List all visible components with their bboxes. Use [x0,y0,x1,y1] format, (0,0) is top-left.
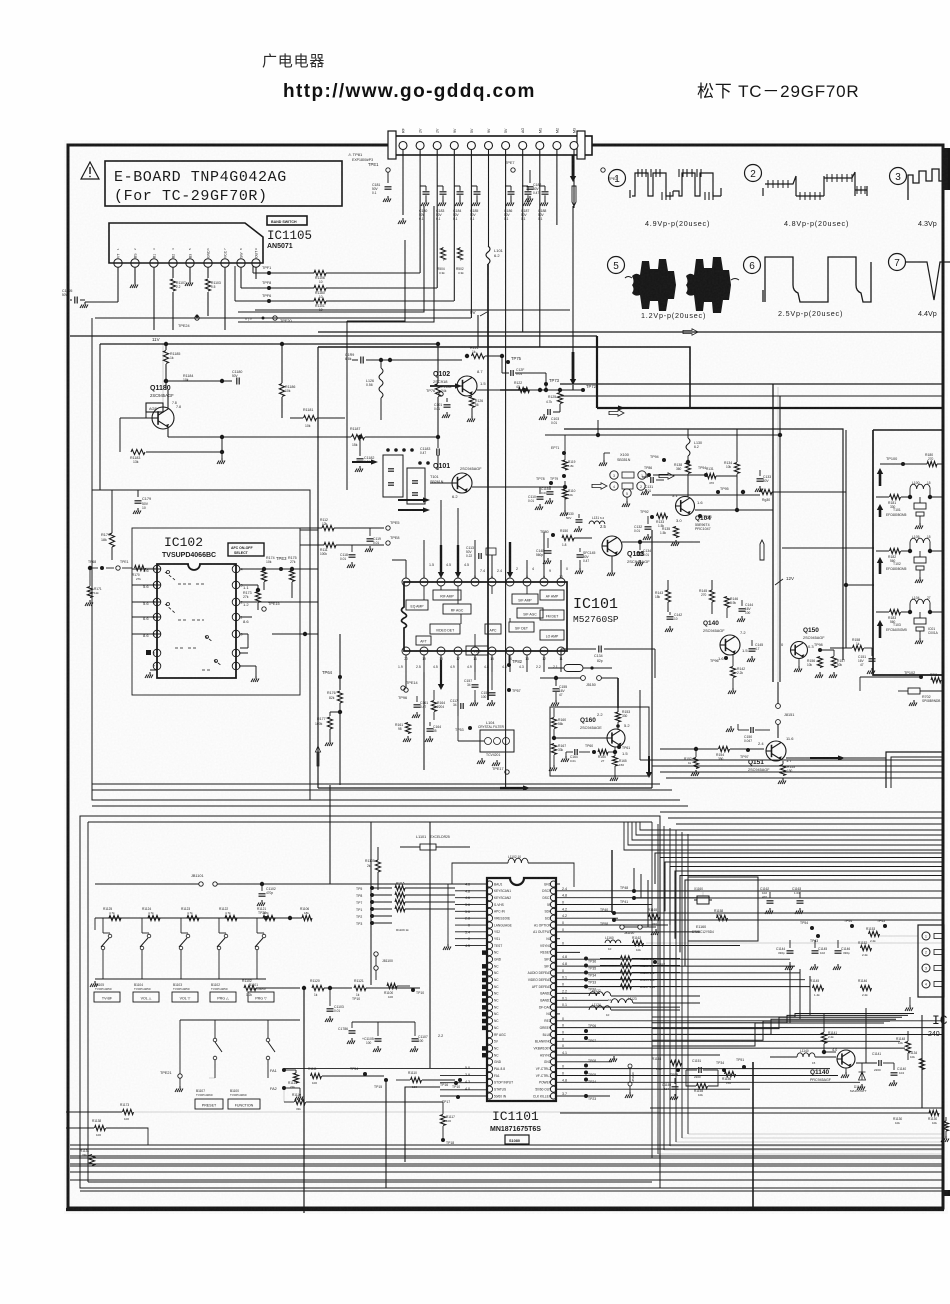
jumper J5150 [581,676,586,681]
IC1101 pin 15 [486,977,492,983]
wire [255,309,570,311]
waveform 5 blob right [686,257,731,313]
waveform 6 trace [763,257,871,302]
IC101 block RF AGC [443,604,471,614]
wire [453,150,455,301]
switch B1103 [180,918,182,933]
wire [614,912,944,914]
resistor R121 [472,353,485,358]
testpoint TP75 [506,360,510,364]
wire [557,972,800,974]
testpoint TP86 [647,473,651,477]
testpoint TPE24 [195,316,199,320]
IC1101 pin 43 [550,1025,556,1031]
resistor R1115b [293,1073,298,1083]
resistor R1184 [164,379,168,383]
IC101 bottom pin 19 [420,647,428,655]
IC1105 pin 6 [204,259,212,267]
IC1101 pin 37 [550,1066,556,1072]
svg-text:松下 TC－29GF70R: 松下 TC－29GF70R [697,82,860,101]
switch B1107 [213,1038,217,1042]
wire [440,1075,486,1077]
testpoint TP98 [818,648,822,652]
resistor R156 [817,657,822,668]
resistor R1186 [279,384,284,397]
wire [557,951,580,953]
capacitor C144 [741,600,743,606]
resistor R145 [709,590,714,602]
wire [423,540,425,578]
wire [658,1153,944,1155]
wire [651,822,653,1158]
connector B pin 1 [922,932,930,940]
wire [455,938,486,940]
wire [652,1015,908,1022]
resistor R1165 [649,914,660,919]
wire [557,1047,905,1049]
waveform 5 blob left [632,259,676,311]
wire thick to Q160 box [617,678,619,708]
wire [440,1082,486,1084]
IC101 block SIF AMP [512,594,538,604]
capacitor C1162 [769,892,771,898]
svg-text:M1: M1 [538,128,542,133]
IC1105 pin 4 [169,259,177,267]
IC101 block RIF AMP [433,590,461,600]
filter bank box [873,430,944,675]
resistor R1107 [172,267,174,278]
IC1101 pin 58 [550,922,556,928]
testpoint TP7 [370,900,374,904]
resistor R1148 [905,1042,910,1053]
IC101 block FM DET [540,610,564,620]
fuse FA2 [282,1086,286,1090]
connector pin 11 [570,142,578,150]
wire [234,266,236,301]
junction [616,724,620,728]
testpoint TPE8 [386,541,390,545]
wire [143,568,161,570]
power rail 11V [100,343,440,345]
IC1101 pin 17 [486,990,492,996]
thick arrow up f2 [879,508,882,517]
resistor R1106b [302,915,312,920]
NC mark [482,998,487,1003]
IC1101 pin 25 [486,1045,492,1051]
wire [557,883,560,885]
transistor Q160 [607,729,625,747]
wire [668,817,944,819]
arrow right mid [500,787,525,789]
resistor R1124 [148,915,160,920]
IC1101 pin 53 [550,956,556,962]
arrow thick [457,545,459,574]
svg-text:广电电器: 广电电器 [262,53,325,70]
resistor R164b [431,701,436,712]
resistor R161 [405,723,410,734]
capacitor C1103 [329,988,331,1006]
IC1101 pin 23 [486,1031,492,1037]
svg-text:9V: 9V [453,128,457,133]
Q1180 AGF box [146,403,163,412]
waveform 5 marker [608,257,625,274]
wire [557,999,608,1001]
wire [664,1149,944,1151]
wire [557,1034,944,1036]
wire [474,655,476,672]
wire [70,1179,944,1181]
wire elbow [238,206,424,312]
IC1101 pin 61 [550,901,556,907]
capacitor C1141 [878,1060,880,1066]
inductor L126 [379,368,383,398]
testpoint TP79 [562,474,566,478]
testpoint TP78 [549,481,553,485]
resistor R118 [562,489,567,499]
connector pin 10 [553,142,561,150]
inductor L1122 [589,992,611,996]
testpoint TP93 [698,514,702,518]
resistor R1101 [269,300,314,302]
testpoint TP95b [716,490,720,494]
bus lines right top [560,383,944,385]
box around right upper [564,429,843,660]
wire [340,1075,384,1077]
IC1101 pin 29 [486,1072,492,1078]
schematic border [68,145,943,1208]
resistor R504 [440,248,445,260]
IC101 top pin 3 [437,578,445,586]
wire [652,765,944,767]
IC101 top pin 9 [540,578,548,586]
NC mark [482,991,487,996]
wire [132,584,161,586]
wire [505,150,507,788]
wire [390,359,462,361]
wire [99,344,101,490]
switch B1100 [266,1038,270,1042]
resistor R119 [562,460,567,470]
IC101 bottom pin 18 [437,647,445,655]
capacitor C155 [555,678,557,686]
testpoint TP57b [653,960,657,964]
IC1101 pin 11 [486,949,492,955]
IC1101 pin 40 [550,1045,556,1051]
NC mark [482,985,487,990]
IC101 bottom pin 15 [488,647,496,655]
capacitor C1102 [261,884,263,891]
capacitor C1146 [837,940,839,948]
IC1101 pin 55 [550,942,556,948]
capacitor C182 [529,170,531,183]
connector pin 1 [399,142,407,150]
wire [339,712,341,785]
svg-text:9V: 9V [487,128,491,133]
transistor Q101 [452,473,472,493]
resistor R112 [322,525,334,530]
wire [676,823,944,825]
wire [557,1095,610,1097]
ground [645,489,647,492]
capacitor C157 [474,672,476,680]
wire [652,1157,944,1159]
junction [563,485,567,489]
capacitor C134 [560,649,562,655]
IC102 pin 3 [153,598,161,606]
wire [385,1082,387,1188]
dot [538,388,542,392]
E1160 box [688,877,758,941]
testpoint TP05 [584,1071,588,1075]
bus corner [318,347,690,408]
waveform 7 trace [905,262,950,300]
wire [652,1014,914,1018]
wire [687,834,689,1134]
capacitor C183 [440,191,447,193]
testpoint TP24 [584,1078,588,1082]
waveform 1 marker [609,170,626,187]
IC1101 bottom box [405,1087,440,1162]
wire [663,826,665,1150]
IC101 bottom pin 17 [454,647,462,655]
capacitor C110 [539,487,541,494]
wire [132,616,161,618]
resistor R1141 [821,1033,826,1044]
resistor R1100 [387,983,397,988]
connector tab right [577,131,585,159]
IC102 pin 8 [232,662,240,670]
resistor R1157 [621,984,632,989]
IC102 pin 11 [232,613,240,621]
wire feed 1 [782,547,874,549]
IC102 pin 10 [232,630,240,638]
wire [372,894,392,896]
IC1101 pin 30 [486,1079,492,1085]
IC1101 pin 35 [550,1079,556,1085]
IC101 block AFT [416,636,431,645]
IC1101 pin 4 [486,901,492,907]
wire [695,509,737,511]
capacitor C11B [549,486,551,490]
wire [652,1019,896,1034]
testpoint TP54c [810,926,814,930]
wire [522,150,524,332]
IC1101 pin 2 [486,888,492,894]
inductor L1102 [508,858,528,863]
capacitor C150 [491,672,493,690]
S1080 box [505,1135,529,1144]
svg-text:http://www.go-gddq.com: http://www.go-gddq.com [283,81,536,102]
svg-text:5V: 5V [504,128,508,133]
testpoint TP58 [612,918,616,922]
capacitor C131 [650,477,652,483]
resistor R154 [719,746,730,751]
NC mark [482,964,487,969]
wire [921,1015,923,1108]
capacitor C1786 [351,1022,353,1028]
AFC select box [228,543,264,556]
resistor R1129 edge [943,1121,948,1131]
resistor R171 [87,587,92,598]
ground [402,218,404,221]
capacitor C1105c [377,1022,379,1036]
wire [640,874,642,898]
testpoint TP96b [404,688,408,692]
wire [657,824,659,1154]
IC102 pin 9 [232,649,240,657]
wire [477,389,540,391]
capacitor C1182 [359,452,361,456]
arrow down box edge [648,756,650,774]
wire [436,150,438,288]
open arrow top [683,329,698,335]
IC101 body [402,582,568,651]
ground [909,1005,911,1008]
central box left edge [317,347,319,788]
transformer T101 can [383,455,403,497]
wire [557,1020,944,1022]
wire feed 2 [846,584,874,586]
wire [557,931,700,933]
capacitor C12F [510,370,512,376]
wire [509,655,511,672]
resistor R1152 [861,945,872,950]
wire [685,880,944,966]
testpoint TP32 [584,985,588,989]
IC1101 pin 57 [550,929,556,935]
wire [272,633,318,635]
IC1101 pin 56 [550,936,556,942]
jumper J81160 [620,925,624,929]
testpoint TPE2 [601,168,605,172]
arrow into Q102 [430,385,457,387]
IC1101 pin 21 [486,1018,492,1024]
wire [611,850,613,913]
capacitor C180 [423,191,430,193]
wire [650,1107,944,1109]
resistor R1115 [395,885,405,890]
wire [680,876,944,953]
IC101 top pin 4 [454,578,462,586]
IC1101 pin 12 [486,956,492,962]
lower section inner line [88,821,652,823]
wire emitter Q1180 [167,427,169,437]
wire [556,150,558,225]
IC1101 pin 46 [550,1004,556,1010]
resistor R1130 [929,1110,939,1115]
capacitor C184 [457,191,464,193]
wire [557,1054,720,1056]
connector A1 body [393,136,592,155]
capacitor C1181 [221,437,223,452]
waveform 1 ticks [637,169,639,177]
wire [300,883,476,885]
resistor R1106 [269,272,314,274]
resistor R1150 [621,963,632,968]
wire [240,652,248,654]
IC1105 pin 7 [221,259,229,267]
testpoint TP34b [722,1068,726,1072]
wire [560,655,562,672]
wire [675,871,944,939]
testpoint TPF6 [267,299,271,303]
wire [372,901,392,903]
inductor L1124 [589,1006,611,1010]
inductor L131 [589,521,605,524]
wire [474,540,476,578]
jumper J81100 [374,952,378,956]
lower section outer box [80,816,660,1188]
svg-text:2V: 2V [436,128,440,133]
wire elbow [238,206,434,322]
wire [614,919,944,921]
waveform 6 marker [744,257,761,274]
testpoint TP72 [581,388,585,392]
wire rail2 [180,1019,300,1021]
IC101 bottom pin 20 [402,647,410,655]
waveform 5 squiggle [625,277,739,281]
IC102 pin 2 [153,581,161,589]
resistor R1125 [109,915,121,920]
capacitor C118 [351,545,353,552]
wire [636,822,944,835]
crystal filter L104 [480,730,514,752]
testpoint TPE7 [511,168,515,172]
NC mark [482,978,487,983]
resistor R1181 [304,415,317,420]
wire [240,665,256,667]
wire [455,931,486,933]
ground rail [95,978,266,980]
connector pin 9 [536,142,544,150]
capacitor C103 [553,411,560,413]
wire [240,616,252,618]
resistor R1187 [352,434,365,439]
wire [440,1068,486,1070]
testpoint TP80 [551,533,555,537]
NC mark [482,950,487,955]
IC101 bottom pin 11 [557,647,565,655]
wire [557,890,700,892]
IC102 pin 4 [153,613,161,621]
ferrite bead pill [564,665,583,672]
T100 pins [610,471,618,479]
wire [880,935,918,937]
wire [624,822,944,850]
IC101 top pin 5 [471,578,479,586]
IC102 pin 1 [153,565,161,573]
testpoint TP92 [650,515,654,519]
testpoint TP82 [507,663,511,667]
Q160 outline box [550,707,649,776]
wire [284,1068,440,1070]
wire [634,897,944,899]
IC1101 pin 52 [550,963,556,969]
wire [557,924,668,926]
resistor R164 [598,749,608,754]
wire [255,267,257,279]
capacitor C145b [751,640,753,646]
resistor R1110b [411,1077,422,1082]
wire [132,601,161,603]
wire [557,986,810,988]
wire [557,1075,838,1077]
resistor R180 [927,461,937,466]
arrow down from connector pin 12 [572,155,575,178]
testpoint TPE1 [386,168,390,172]
resistor R1102 [244,985,256,990]
testpoint TP34 [584,971,588,975]
